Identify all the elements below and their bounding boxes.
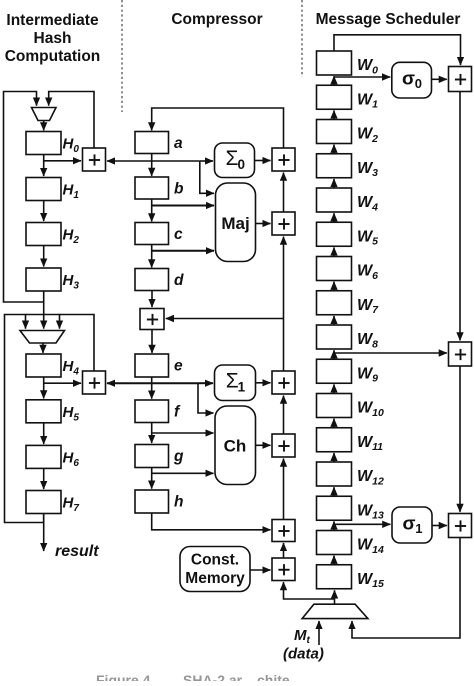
svg-text:c: c [174,226,183,243]
wire W8 to W7 [333,316,335,325]
wire adder2 feedback to mux2 right input [60,315,95,372]
adder A11 (W8) [449,342,472,366]
wire W8 output to adder A11 [334,352,447,354]
register W8 [317,325,352,349]
label Const. Memory [185,552,245,588]
wire c to d [151,245,153,268]
label H4 [63,358,80,378]
adder A7 (Sigma1) [272,371,295,394]
wire Const Memory to adder A9 [250,569,271,571]
label W5 [357,228,378,247]
wire loop H3 to mux1 left input [4,92,44,303]
label c [174,226,183,243]
adder A4 (Sigma0) [272,148,295,171]
title: Compressor [171,11,262,28]
wire W5 to W4 [333,213,335,222]
label H6 [63,449,80,469]
label W1 [357,91,378,110]
label W11 [357,434,383,453]
caption fragment (cut off at page bottom) [96,672,290,686]
wire b to Maj input 2 [152,205,214,207]
svg-text:0: 0 [238,157,246,172]
label g [173,448,184,465]
adder A10 (sigma0) [449,67,472,92]
wire W14 to W13 [333,521,335,530]
register W11 [317,428,352,452]
wire H2 to H3 [43,246,45,267]
register H6 [26,445,61,468]
svg-text:σ: σ [403,514,416,534]
label W7 [357,297,379,316]
adder A3 (d+T1) [140,309,164,330]
wire adder A8 to adder A7 [283,396,285,434]
label W13 [357,502,384,521]
register H7 [26,491,61,514]
svg-text:result: result [55,543,99,560]
wire g to Ch input 3 [152,472,214,474]
wire a row to adder A1 [107,160,200,162]
svg-text:1: 1 [238,379,246,394]
label H3 [63,272,80,292]
svg-text:a: a [174,135,183,152]
register W9 [317,359,352,383]
svg-text:Message Scheduler: Message Scheduler [316,11,461,28]
svg-text:(data): (data) [283,646,324,663]
wire adder A3 to e [151,330,153,353]
wire adder A5 to adder A4 [283,173,285,212]
wire W7 to W6 [333,282,335,291]
wire a to b [151,154,153,176]
wire H1 to H2 [43,201,45,222]
register W13 [317,496,352,520]
register W0 [317,51,352,75]
label Mt [294,627,311,646]
wire loop H7 to mux2 left input [5,315,44,523]
label W8 [357,331,378,350]
register H0 [26,132,61,155]
svg-text:Maj: Maj [221,214,249,233]
wire W15 to W14 [333,556,335,565]
register b [135,177,169,199]
register W6 [317,257,352,281]
label H0 [63,136,80,156]
adder A2 (H4+e) [83,371,106,394]
wire W6 to W5 [333,247,335,256]
adder A12 (sigma1) [449,514,472,538]
wire H7 to result [43,514,45,552]
wire e to f [151,377,153,399]
svg-text:Const.: Const. [191,552,239,569]
label d [174,272,184,289]
label H5 [63,404,80,424]
wire b to c [151,199,153,221]
block Sigma0 [215,143,255,178]
register W2 [317,120,352,144]
label H7 [63,495,80,515]
register W1 [317,85,352,109]
svg-text:Computation: Computation [5,48,101,65]
register W15 [317,565,352,589]
wire e row to adder A2 [107,382,198,384]
wire adder A9 to adder A6 [283,543,285,558]
block Sigma1 [215,365,256,401]
svg-text:Intermediate: Intermediate [6,12,99,29]
wire H0 to H1 [43,155,45,177]
wire Sigma0 to adder A4 [255,160,271,162]
register g [135,445,169,468]
block sigma0 [392,62,432,98]
label e [174,358,183,375]
svg-text:g: g [173,448,184,465]
wire W12 to W11 [333,453,335,462]
wire H3 to mux2 middle input [43,302,45,329]
wire W4 to W3 [333,179,335,188]
register H2 [26,223,61,246]
wire Sigma1 to adder A7 [256,382,271,384]
label b [174,181,184,198]
wire W9 to W8 [333,350,335,359]
wire W1 to W0 [333,76,335,85]
register W12 [317,462,352,486]
wire H0 output to adder1 [44,160,81,162]
svg-text:h: h [174,494,183,511]
register H3 [26,268,61,291]
title: Intermediate Hash Computation [5,12,101,65]
svg-text:1: 1 [415,521,422,536]
svg-text:0: 0 [415,76,422,91]
register c [135,223,169,245]
label h [174,494,183,511]
wire d to adder A3 [151,291,153,308]
block sigma1 [392,507,432,543]
wire W0 output to sigma0 [334,76,390,78]
wire H4 to H5 [43,377,45,398]
register W10 [317,394,352,418]
register d [135,269,169,291]
register e [135,354,169,377]
wire adder A11 to adder A12 [459,366,461,512]
wire e row to Sigma1 [198,382,213,384]
wire sigma0 to adder A10 [432,78,447,80]
wire mux2 output to H4 [42,343,44,353]
label Sigma1 [226,370,246,395]
wire a row to Sigma0 [200,160,213,162]
svg-text:Compressor: Compressor [171,11,262,28]
svg-text:Hash: Hash [34,30,72,47]
wire mux1 output to H0 [43,121,45,131]
wire e branch to Ch input 1 [198,383,214,413]
label H1 [63,182,80,202]
label a [174,135,183,152]
title: Message Scheduler [316,11,461,28]
mux M3 (data input) [302,604,368,618]
adder A5 (Maj) [272,212,295,235]
wire h to adder A6 [152,513,271,530]
label W15 [357,571,384,590]
label W4 [357,194,378,213]
dashed separator right [301,0,303,77]
wire mux3 to W15 [334,590,336,604]
register f [135,400,169,423]
adder A1 (H0+a) [83,148,106,171]
svg-text:σ: σ [402,69,415,89]
label H2 [63,227,80,247]
label W6 [357,263,378,282]
register W4 [317,188,352,212]
mux M2 [20,331,65,344]
block Const. Memory [180,547,250,592]
block Ch [215,406,256,485]
wire segment across mux2 inputs [26,314,60,316]
register H4 [26,354,61,377]
wire adder1 feedback to mux1 right input [49,92,94,149]
wire W10 to W9 [333,384,335,393]
wire W3 to W2 [333,145,335,154]
svg-text:Memory: Memory [185,570,245,587]
label Sigma0 [226,147,246,172]
register W3 [317,154,352,178]
register a [135,132,169,154]
wire adder A6 to adder A8 [283,459,285,520]
wire T1 branch to adder A3 [166,318,284,320]
register W14 [317,531,352,555]
wire H4 output to adder2 [44,382,81,384]
wire c to Maj input 3 [152,250,214,252]
wire Maj to adder A5 [256,223,271,225]
label (data) [283,646,324,663]
wire W13 to W12 [333,487,335,496]
adder A6 (h) [272,520,295,542]
wire Wt from scheduler to adder A9 [284,582,335,599]
wire f to g [151,423,153,444]
wire W11 to W10 [333,419,335,428]
svg-text:b: b [174,181,184,198]
wire adder chain top feedback to a [152,108,284,148]
wire sigma1 to adder A12 [432,525,447,527]
label Ch [224,437,247,456]
label W2 [357,126,378,145]
register W7 [317,291,352,315]
wire W13 output to sigma1 [334,523,390,525]
wire adder A12 to input mux [352,538,460,639]
svg-text:e: e [174,358,183,375]
wire g to h [151,468,153,489]
label W12 [357,468,384,487]
wire f to Ch input 2 [152,432,214,434]
wire adder A7 up to adder A5 [283,237,285,371]
label W9 [357,365,378,384]
adder A9 (Kt) [272,558,295,581]
label W10 [357,400,384,419]
adder A8 (Ch) [272,434,295,457]
register H1 [26,178,61,201]
wire H5 to H6 [43,423,45,444]
wire W2 to W1 [333,110,335,119]
svg-text:d: d [174,272,184,289]
label sigma1 [403,514,423,537]
wire Mt data input to mux3 [318,621,320,645]
register H5 [26,400,61,423]
label sigma0 [402,69,422,92]
wire W0 feedback to adder A10 [334,35,461,65]
svg-text:Ch: Ch [224,437,247,456]
mux M1 [32,108,57,121]
label f [174,404,181,421]
label W0 [357,57,378,76]
label Maj [221,214,249,233]
block Maj [216,183,256,262]
wire a branch to Maj input 1 [200,161,214,193]
label result [55,543,99,560]
register W5 [317,222,352,246]
label W3 [357,160,378,179]
wire adder A10 to adder A11 [459,92,461,341]
dashed separator left [121,0,123,112]
register h [135,490,169,513]
wire H6 to H7 [43,468,45,489]
label W14 [357,537,384,556]
wire Ch to adder A8 [256,444,271,446]
